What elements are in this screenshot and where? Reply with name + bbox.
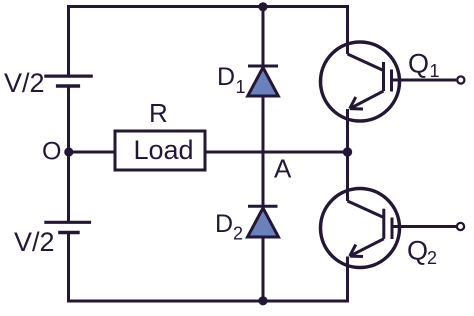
- wire top rail: [67, 5, 349, 8]
- junction dot top rail / D1: [258, 2, 267, 11]
- transistor Q2 emitter arrowhead: [350, 245, 363, 257]
- transistor Q1 emitter arrowhead: [350, 97, 363, 109]
- transistor Q1 gate terminal: [457, 76, 464, 83]
- wire left vertical middle: [67, 86, 70, 222]
- transistor Q1 main bar: [382, 62, 385, 91]
- svg-text:1: 1: [236, 77, 246, 97]
- battery B1 (V/2 top) long plate: [44, 74, 93, 77]
- transistor Q1 collector lead: [346, 7, 349, 55]
- transistor Q2 gate lead: [392, 225, 456, 228]
- battery B2 short plate: [58, 231, 79, 234]
- transistor Q2 circle: [321, 189, 400, 268]
- svg-text:A: A: [274, 154, 292, 184]
- wire diode branch bottom: [262, 237, 265, 301]
- transistor Q1 gate bar: [390, 70, 393, 92]
- svg-text:D: D: [217, 63, 235, 91]
- transistor Q1 circle: [321, 42, 400, 121]
- transistor Q2 collector diagonal: [348, 201, 384, 218]
- svg-text:2: 2: [233, 224, 243, 244]
- transistor Q1 emitter diagonal: [350, 91, 384, 109]
- svg-text:Q: Q: [407, 236, 428, 266]
- transistor Q2 collector lead: [346, 152, 349, 201]
- wire O to Load: [69, 151, 116, 154]
- svg-text:Load: Load: [133, 135, 193, 165]
- svg-text:V/2: V/2: [14, 227, 55, 257]
- transistor Q2 gate terminal: [457, 223, 464, 230]
- wire bottom rail: [67, 300, 349, 303]
- transistor Q2 emitter diagonal: [350, 239, 384, 256]
- transistor Q2 gate bar: [391, 218, 394, 240]
- transistor Q1 emitter lead: [346, 109, 349, 152]
- wire left vertical lower: [67, 233, 70, 303]
- transistor Q1 collector diagonal: [348, 54, 384, 71]
- wire Load to node A junction: [205, 151, 348, 154]
- junction dot node A / Q1-Q2: [343, 147, 352, 156]
- transistor Q2 emitter lead: [346, 257, 349, 302]
- wire diode branch middle: [262, 96, 265, 206]
- svg-text:O: O: [42, 138, 61, 166]
- node O junction dot: [64, 147, 73, 156]
- battery B1 short plate: [56, 84, 80, 87]
- wire left vertical upper: [67, 5, 70, 76]
- svg-text:V/2: V/2: [4, 68, 45, 98]
- junction dot bottom rail / D2: [258, 296, 267, 305]
- battery B2 (V/2 bottom) long plate: [44, 221, 91, 224]
- resistor R (Load box): [115, 131, 205, 170]
- transistor Q1 gate lead: [392, 79, 457, 82]
- svg-text:Q: Q: [408, 49, 429, 79]
- diode D2 cathode bar: [248, 205, 278, 208]
- diode D1 cathode bar: [248, 65, 278, 68]
- svg-text:2: 2: [427, 248, 437, 268]
- diode D1 triangle: [248, 68, 279, 97]
- svg-text:R: R: [149, 98, 168, 128]
- wire diode branch top: [262, 7, 265, 67]
- svg-text:1: 1: [430, 61, 440, 81]
- svg-text:D: D: [215, 210, 233, 238]
- transistor Q2 main bar: [382, 209, 385, 239]
- diode D2 triangle: [248, 208, 279, 237]
